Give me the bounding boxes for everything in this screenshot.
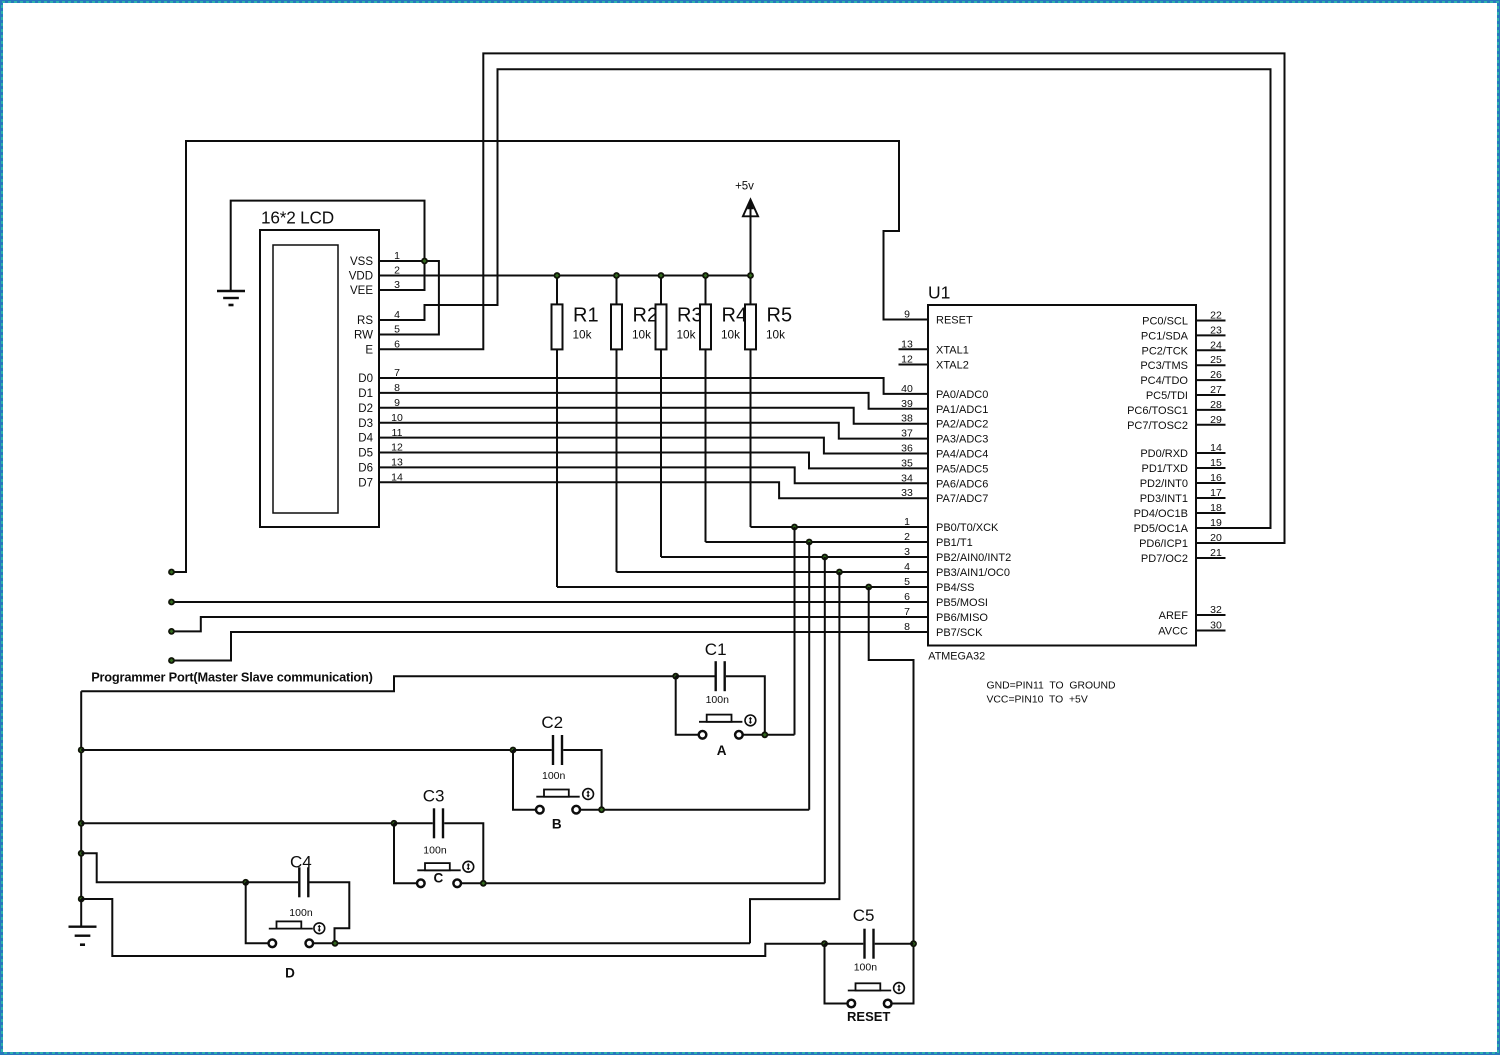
svg-text:100n: 100n bbox=[706, 694, 730, 706]
svg-text:23: 23 bbox=[1210, 324, 1222, 336]
svg-text:RW: RW bbox=[354, 330, 373, 342]
svg-text:D7: D7 bbox=[358, 477, 373, 489]
svg-text:PC0/SCL: PC0/SCL bbox=[1142, 316, 1188, 328]
svg-text:D3: D3 bbox=[358, 418, 373, 430]
svg-text:R5: R5 bbox=[767, 305, 793, 327]
svg-text:AREF: AREF bbox=[1159, 610, 1189, 622]
svg-text:34: 34 bbox=[901, 472, 913, 484]
svg-text:C4: C4 bbox=[290, 852, 312, 871]
svg-text:26: 26 bbox=[1210, 369, 1222, 381]
svg-text:D0: D0 bbox=[358, 373, 373, 385]
svg-text:22: 22 bbox=[1210, 310, 1222, 322]
svg-text:PB6/MISO: PB6/MISO bbox=[936, 612, 988, 624]
svg-text:PB0/T0/XCK: PB0/T0/XCK bbox=[936, 522, 999, 534]
svg-text:GND=PIN11 TO GROUND: GND=PIN11 TO GROUND bbox=[987, 681, 1116, 692]
svg-text:PA4/ADC4: PA4/ADC4 bbox=[936, 449, 988, 461]
svg-text:VCC=PIN10 TO +5V: VCC=PIN10 TO +5V bbox=[987, 695, 1088, 706]
svg-text:25: 25 bbox=[1210, 354, 1222, 366]
svg-text:28: 28 bbox=[1210, 399, 1222, 411]
svg-text:100n: 100n bbox=[423, 844, 447, 856]
svg-text:R4: R4 bbox=[722, 305, 748, 327]
svg-text:C5: C5 bbox=[853, 906, 875, 925]
svg-text:+5v: +5v bbox=[735, 181, 754, 193]
svg-text:PB2/AIN0/INT2: PB2/AIN0/INT2 bbox=[936, 552, 1011, 564]
svg-text:PC5/TDI: PC5/TDI bbox=[1146, 390, 1188, 402]
svg-text:PC1/SDA: PC1/SDA bbox=[1141, 330, 1189, 342]
svg-text:37: 37 bbox=[901, 428, 913, 440]
svg-text:R1: R1 bbox=[573, 305, 599, 327]
svg-text:D6: D6 bbox=[358, 463, 373, 475]
svg-text:29: 29 bbox=[1210, 414, 1222, 426]
svg-text:PA2/ADC2: PA2/ADC2 bbox=[936, 419, 988, 431]
svg-text:PD4/OC1B: PD4/OC1B bbox=[1134, 508, 1188, 520]
svg-text:PA5/ADC5: PA5/ADC5 bbox=[936, 463, 988, 475]
svg-text:100n: 100n bbox=[289, 907, 313, 919]
svg-text:21: 21 bbox=[1210, 547, 1222, 559]
svg-text:PC7/TOSC2: PC7/TOSC2 bbox=[1127, 420, 1188, 432]
svg-text:PD0/RXD: PD0/RXD bbox=[1140, 448, 1188, 460]
svg-text:10k: 10k bbox=[721, 328, 740, 342]
svg-text:PC6/TOSC1: PC6/TOSC1 bbox=[1127, 405, 1188, 417]
svg-text:PA3/ADC3: PA3/ADC3 bbox=[936, 434, 988, 446]
svg-text:32: 32 bbox=[1210, 604, 1222, 616]
svg-text:PB5/MOSI: PB5/MOSI bbox=[936, 597, 988, 609]
svg-text:100n: 100n bbox=[542, 770, 566, 782]
svg-text:R3: R3 bbox=[677, 305, 703, 327]
svg-text:PD2/INT0: PD2/INT0 bbox=[1140, 478, 1188, 490]
svg-text:R2: R2 bbox=[633, 305, 659, 327]
svg-text:PD6/ICP1: PD6/ICP1 bbox=[1139, 538, 1188, 550]
svg-text:38: 38 bbox=[901, 413, 913, 425]
svg-text:13: 13 bbox=[901, 338, 913, 350]
svg-text:40: 40 bbox=[901, 383, 913, 395]
svg-text:17: 17 bbox=[1210, 487, 1222, 499]
svg-text:PB7/SCK: PB7/SCK bbox=[936, 627, 983, 639]
svg-text:30: 30 bbox=[1210, 620, 1222, 632]
svg-text:D5: D5 bbox=[358, 448, 373, 460]
svg-text:PD3/INT1: PD3/INT1 bbox=[1140, 493, 1188, 505]
svg-text:C: C bbox=[434, 871, 444, 886]
svg-text:10k: 10k bbox=[632, 328, 651, 342]
svg-text:XTAL2: XTAL2 bbox=[936, 360, 969, 372]
svg-text:Programmer Port(Master Slave c: Programmer Port(Master Slave communicati… bbox=[91, 670, 373, 685]
svg-text:100n: 100n bbox=[854, 962, 878, 974]
svg-text:15: 15 bbox=[1210, 457, 1222, 469]
svg-text:U1: U1 bbox=[928, 283, 950, 303]
svg-text:36: 36 bbox=[901, 443, 913, 455]
svg-text:PC2/TCK: PC2/TCK bbox=[1142, 345, 1189, 357]
svg-text:PA7/ADC7: PA7/ADC7 bbox=[936, 493, 988, 505]
svg-text:D4: D4 bbox=[358, 433, 373, 445]
svg-text:39: 39 bbox=[901, 398, 913, 410]
svg-text:18: 18 bbox=[1210, 502, 1222, 514]
svg-text:10k: 10k bbox=[677, 328, 696, 342]
svg-text:14: 14 bbox=[1210, 442, 1222, 454]
svg-text:PD1/TXD: PD1/TXD bbox=[1142, 463, 1189, 475]
svg-text:E: E bbox=[365, 344, 373, 356]
svg-text:C3: C3 bbox=[423, 787, 445, 806]
svg-text:C1: C1 bbox=[705, 640, 727, 659]
svg-text:A: A bbox=[717, 743, 727, 758]
svg-text:RESET: RESET bbox=[936, 315, 973, 327]
svg-text:10k: 10k bbox=[573, 328, 592, 342]
svg-text:PB4/SS: PB4/SS bbox=[936, 582, 975, 594]
svg-text:PC3/TMS: PC3/TMS bbox=[1140, 360, 1188, 372]
svg-text:35: 35 bbox=[901, 457, 913, 469]
svg-text:PB1/T1: PB1/T1 bbox=[936, 537, 973, 549]
svg-text:PA1/ADC1: PA1/ADC1 bbox=[936, 404, 988, 416]
svg-text:C2: C2 bbox=[541, 713, 563, 732]
svg-text:VEE: VEE bbox=[350, 285, 373, 297]
svg-text:10k: 10k bbox=[766, 328, 785, 342]
svg-text:RS: RS bbox=[357, 315, 373, 327]
svg-text:VSS: VSS bbox=[350, 256, 373, 268]
svg-text:12: 12 bbox=[901, 354, 913, 366]
svg-text:24: 24 bbox=[1210, 339, 1222, 351]
svg-text:ATMEGA32: ATMEGA32 bbox=[928, 651, 985, 663]
svg-text:D: D bbox=[285, 966, 295, 981]
svg-text:33: 33 bbox=[901, 487, 913, 499]
svg-text:PA6/ADC6: PA6/ADC6 bbox=[936, 478, 988, 490]
svg-text:16*2 LCD: 16*2 LCD bbox=[261, 208, 334, 228]
svg-text:PD7/OC2: PD7/OC2 bbox=[1141, 553, 1188, 565]
svg-text:XTAL1: XTAL1 bbox=[936, 344, 969, 356]
svg-text:16: 16 bbox=[1210, 472, 1222, 484]
svg-text:RESET: RESET bbox=[847, 1009, 890, 1024]
svg-text:PB3/AIN1/OC0: PB3/AIN1/OC0 bbox=[936, 567, 1010, 579]
svg-text:PD5/OC1A: PD5/OC1A bbox=[1134, 523, 1189, 535]
svg-text:27: 27 bbox=[1210, 384, 1222, 396]
svg-text:B: B bbox=[552, 817, 562, 832]
svg-text:PC4/TDO: PC4/TDO bbox=[1140, 375, 1188, 387]
svg-text:VDD: VDD bbox=[349, 271, 373, 283]
svg-text:D2: D2 bbox=[358, 403, 373, 415]
svg-text:PA0/ADC0: PA0/ADC0 bbox=[936, 389, 988, 401]
svg-text:D1: D1 bbox=[358, 388, 373, 400]
svg-text:AVCC: AVCC bbox=[1158, 626, 1188, 638]
